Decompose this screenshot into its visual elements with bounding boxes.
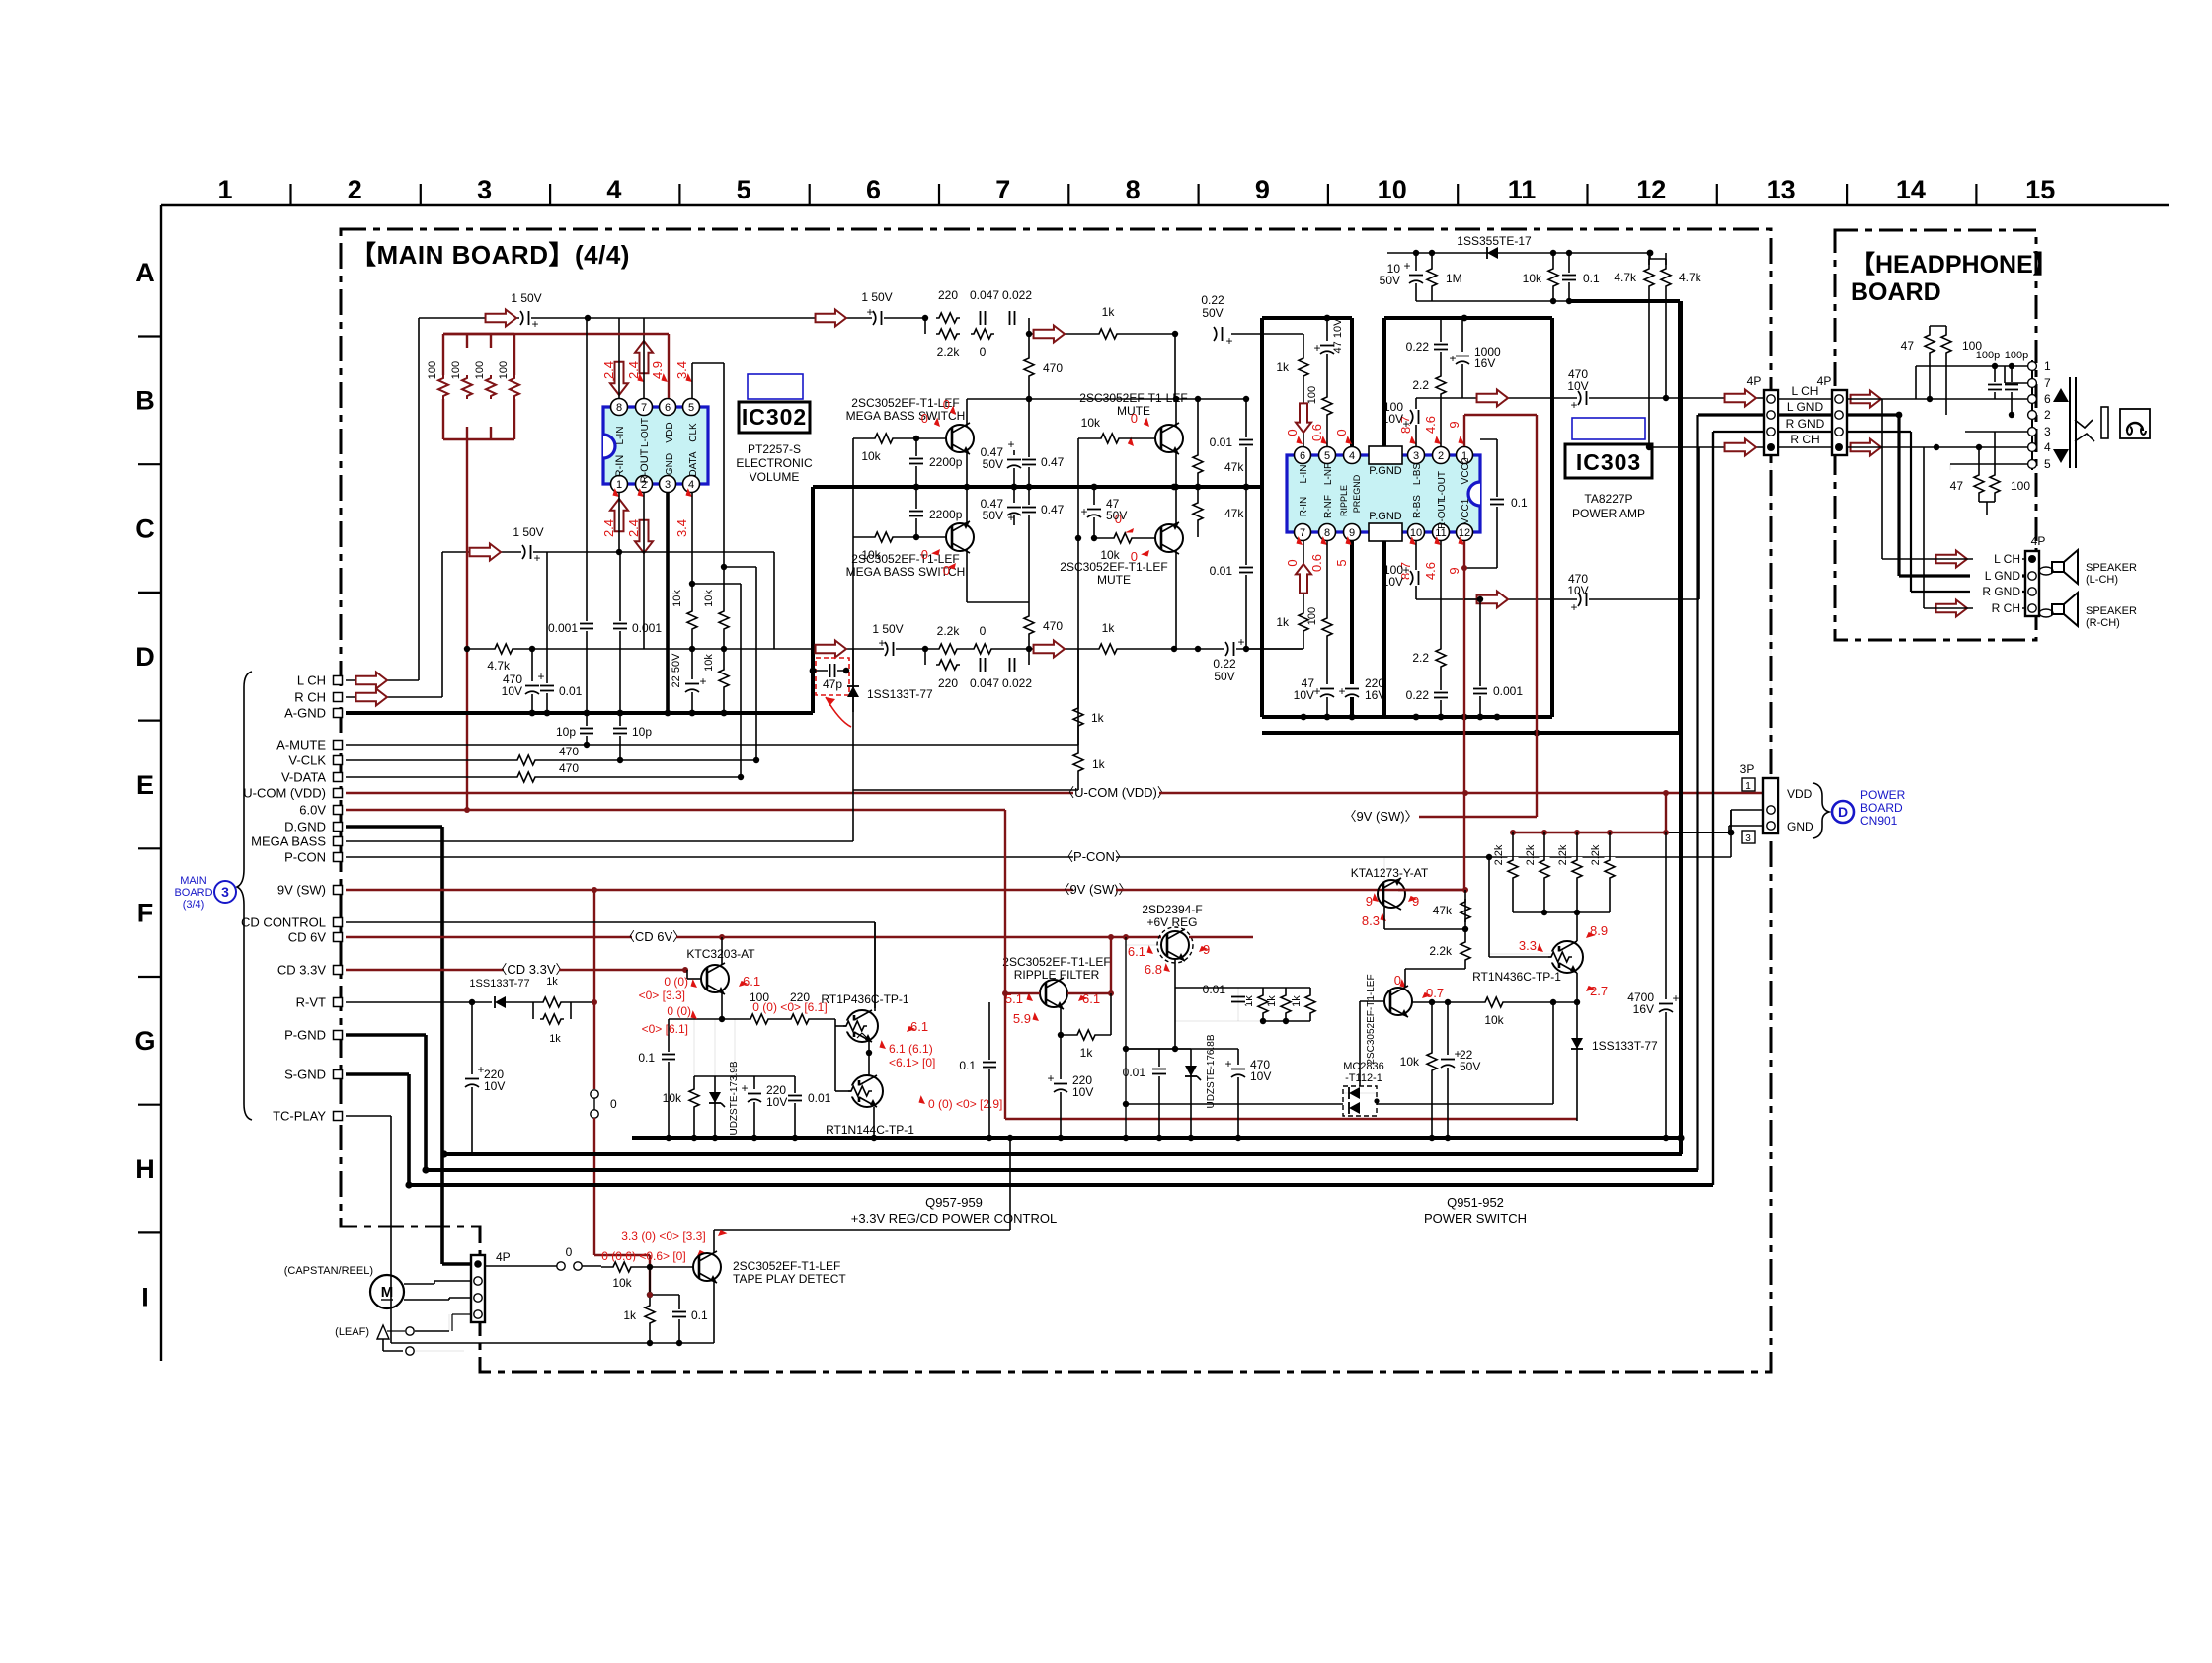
wire KTC emitter line [669,1018,835,1020]
node 9V (SW) terminal [334,886,343,895]
svg-text:1SS133T-77: 1SS133T-77 [867,687,933,701]
svg-text:0.1: 0.1 [1583,272,1600,285]
svg-text:Q951-952: Q951-952 [1447,1195,1504,1210]
filter network L: resistor 220, caps 0.047 0.022 [936,313,960,324]
capacitor 22 50V on DATA rail [691,584,693,713]
wire MC2836 connections [1126,1103,1343,1105]
svg-text:9: 9 [1349,527,1355,539]
svg-text:2200p: 2200p [929,455,963,469]
wire V-DATA line with resistor 470 [346,776,741,778]
svg-text:10V: 10V [1072,1085,1093,1099]
resistor 47k upper [1197,399,1199,487]
wire rail to 4.7k pair [1649,253,1651,259]
svg-text:〈CD 3.3V〉: 〈CD 3.3V〉 [494,962,568,977]
wire L CH output line [1416,397,1764,399]
resistor 1M [1431,253,1433,301]
node V-DATA terminal [334,773,343,782]
svg-text:【HEADPHONE】: 【HEADPHONE】 [1851,251,2058,278]
svg-text:100: 100 [450,361,462,379]
wires motor to connector [404,1283,434,1285]
zener UDZSTE-176.8B [1190,1049,1192,1138]
svg-text:R-IN: R-IN [614,455,626,478]
svg-text:0.01: 0.01 [1210,564,1233,578]
svg-text:L CH: L CH [1792,384,1819,398]
svg-text:【MAIN BOARD】(4/4): 【MAIN BOARD】(4/4) [351,240,630,270]
IC303 pin 3 [1408,447,1425,464]
svg-text:10k: 10k [663,1091,682,1105]
capacitor 1 50V (R2) [884,641,896,657]
svg-text:10k: 10k [703,654,715,672]
wire thick rail to 493 [1286,486,1288,488]
IC302 pin 4 [683,476,700,493]
svg-text:1 50V: 1 50V [872,622,903,636]
svg-text:+: + [1224,1057,1231,1070]
svg-text:+: + [741,1081,748,1095]
resistor 10k CLK b [719,667,730,690]
svg-text:220: 220 [938,676,958,690]
svg-text:RIPPLE: RIPPLE [1339,485,1349,516]
capacitor 0.01 (mute lower) [1245,487,1247,649]
resistor 10k (reg) [693,1019,695,1138]
resistor 10k DATA [687,608,698,632]
resistor 2.2k (sw) [1464,929,1466,969]
svg-text:+: + [1402,417,1409,431]
svg-text:10V: 10V [1567,379,1588,393]
svg-text:(L-CH): (L-CH) [2086,574,2118,586]
resistor 10k (rail) [1552,253,1554,301]
svg-text:L-IN: L-IN [1299,465,1309,484]
svg-text:50V: 50V [983,457,1003,471]
signal arrow R CH [356,689,387,706]
svg-text:10V: 10V [1250,1069,1271,1083]
capacitor 0.47 pair lower [1013,487,1015,525]
svg-text:+: + [866,305,873,319]
capacitor 0.01 (6v reg) [1126,1048,1175,1050]
svg-text:4.7k: 4.7k [1614,271,1637,284]
IC303 pin 9 [1344,524,1361,541]
svg-text:0.001: 0.001 [548,621,578,635]
transistor ripple filter [1040,980,1067,1007]
svg-text:2.2: 2.2 [1412,651,1429,665]
wire network L out [1029,333,1175,335]
wire into IC303 pin6 [1303,334,1304,446]
resistor 1k (R out) [1096,644,1120,655]
svg-text:F: F [137,899,154,928]
border frame top ruler [161,204,2169,206]
svg-text:(3/4): (3/4) [183,899,205,911]
svg-text:+: + [533,551,540,565]
capacitor 0.01 (mute upper) [1245,399,1247,487]
node 6.0V terminal [334,806,343,815]
thick rail top of power amp section [1262,316,1352,320]
wire R CH output line [1416,598,1699,600]
svg-text:47k: 47k [1224,507,1244,520]
IC302 pin 5 [683,399,700,416]
wire tc-play jumper line [485,1265,557,1267]
resistor 100 (reg) [748,1014,771,1025]
node CD CONTROL terminal [334,918,343,927]
capacitor 0.01 left (6v reg) [1126,1048,1159,1050]
capacitor 1 50V (L) [519,310,531,326]
svg-text:3: 3 [1745,833,1751,844]
svg-text:1 50V: 1 50V [861,290,892,304]
svg-text:10k: 10k [671,590,683,607]
resistor 10k (tape) [601,1266,693,1268]
filter network L: resistors 2.2k 0 [924,318,926,334]
svg-text:BOARD: BOARD [1851,278,1941,306]
svg-text:50V: 50V [1380,274,1400,287]
svg-text:1k: 1k [1276,360,1290,374]
svg-text:P-GND: P-GND [284,1028,326,1043]
svg-text:IC303: IC303 [1576,449,1641,475]
svg-text:5.9: 5.9 [1013,1011,1031,1026]
svg-text:10k: 10k [703,590,715,607]
resistor 47k (sw) [1464,890,1466,929]
svg-text:3: 3 [1413,450,1419,462]
connector 3P power board [1763,778,1778,833]
node S-GND terminal [334,1070,343,1079]
wire IC302 pin2 out [643,492,645,649]
IC302 pin 2 [636,476,653,493]
svg-text:MAIN: MAIN [180,875,207,887]
svg-text:U-COM (VDD): U-COM (VDD) [243,786,326,801]
resistor 2.2 bottom [1440,541,1442,717]
svg-text:A-MUTE: A-MUTE [276,738,326,752]
svg-text:5: 5 [688,402,694,414]
svg-text:0 (0) <0> [6.1]: 0 (0) <0> [6.1] [752,1000,827,1014]
main board outline (dash-dot) [341,229,1771,1372]
wire IC302 pin8 feed [618,318,620,399]
svg-text:+: + [1007,437,1014,451]
svg-text:Q957-959: Q957-959 [925,1195,983,1210]
IC303 pin 7 [1295,524,1311,541]
dark red VCC2 wiring [1463,415,1465,446]
svg-text:1k: 1k [1266,995,1278,1007]
svg-text:R-OUT: R-OUT [1437,498,1448,529]
svg-text:50V: 50V [1202,306,1223,320]
svg-text:+: + [1449,352,1456,365]
wire D.GND to motor connector [442,1262,471,1266]
svg-text:<6.1> [0]: <6.1> [0] [889,1056,935,1069]
svg-text:1k: 1k [1092,757,1106,771]
svg-text:L-BS: L-BS [1412,463,1423,486]
wire R-VT line [346,1001,492,1003]
wire collector lower mega bass [966,549,968,602]
wire R GND feed [1713,431,1764,433]
svg-text:10V: 10V [766,1095,787,1109]
svg-text:0.01: 0.01 [1210,436,1233,449]
svg-text:D: D [1838,804,1848,820]
svg-text:16V: 16V [1474,356,1495,370]
IC303 pin 5 [1319,447,1336,464]
svg-text:<0> [6.1]: <0> [6.1] [642,1022,688,1036]
wire R line extension [619,551,774,553]
svg-text:0.01: 0.01 [1203,983,1226,996]
resistor 1k (ripple) [1061,1034,1111,1036]
node R-VT terminal [334,998,343,1007]
svg-text:+: + [1338,684,1345,698]
wire RT1N436C collector [1576,912,1578,941]
IC IC302 body PT2257-S [603,407,708,484]
svg-text:2200p: 2200p [929,508,963,521]
svg-text:4.6: 4.6 [1423,416,1438,434]
wire 6.0V dark red rail [346,809,1005,811]
svg-text:6.1: 6.1 [1128,944,1145,959]
svg-text:M: M [381,1284,394,1301]
svg-text:POWER SWITCH: POWER SWITCH [1424,1211,1527,1226]
wire speaker L CH [1882,558,2025,560]
svg-text:10V: 10V [1382,575,1403,589]
svg-text:5: 5 [1334,559,1349,566]
svg-text:POWER: POWER [1860,788,1906,802]
IC303 pin 12 [1457,524,1473,541]
wire hp R GND [1847,431,1911,433]
svg-text:<0> [3.3]: <0> [3.3] [639,989,685,1002]
diode 1SS133T-77 (sw) [1576,1002,1578,1121]
svg-text:R GND: R GND [1982,585,2020,598]
svg-text:CD 6V: CD 6V [288,930,327,945]
resistor 1k at IC303 pin6 [1299,356,1309,379]
wire tape detect emitter [713,1281,715,1343]
signal arrow L line [486,310,516,327]
signal arrow into mega-bass network [816,310,846,327]
jack play triangle down [2053,449,2069,463]
svg-text:1k: 1k [1102,305,1116,319]
capacitor 220 10V (R-VT) [471,1002,473,1154]
wire V-CLK line with resistor 470 [346,759,756,761]
svg-text:C: C [135,514,155,543]
wire CD 3.3V dark red [346,969,504,971]
svg-text:8.3: 8.3 [1362,913,1380,928]
wire U-COM (VDD) dark red rail [346,792,1073,794]
svg-text:6.1: 6.1 [743,974,760,989]
wire jack pin1 line [1915,366,1917,399]
svg-text:0: 0 [943,397,950,412]
wires leaf to connector [415,1330,449,1332]
svg-text:9: 9 [1255,175,1270,204]
svg-text:+: + [1080,505,1087,518]
svg-text:L-OUT: L-OUT [1437,471,1448,501]
svg-text:MUTE: MUTE [1097,573,1131,587]
wire collector mute upper [1175,399,1177,427]
svg-text:GND: GND [665,453,675,475]
svg-text:(LEAF): (LEAF) [335,1326,369,1338]
svg-text:E: E [136,770,154,800]
svg-text:P.GND: P.GND [1369,511,1401,522]
svg-text:1: 1 [616,479,622,491]
svg-text:BOARD: BOARD [174,887,212,899]
svg-text:0.22: 0.22 [1406,340,1430,354]
resistor 1k (tape) [649,1267,651,1343]
svg-text:5: 5 [2044,457,2051,471]
svg-text:6: 6 [665,402,671,414]
svg-text:10k: 10k [1400,1055,1420,1069]
headphone icon [2120,409,2150,438]
svg-text:1 50V: 1 50V [511,291,541,305]
svg-text:RT1N436C-TP-1: RT1N436C-TP-1 [1472,970,1561,984]
svg-text:3.3: 3.3 [1519,938,1537,953]
main board edge stub [1770,455,1772,778]
svg-text:L GND: L GND [1787,400,1824,414]
IC302 spare box (blue) [748,374,803,399]
svg-text:+: + [1402,563,1409,577]
dark red VCC1 wiring [1463,541,1465,890]
wire IC302 pin5 CLK [691,363,693,399]
wire P-CON line [346,856,1073,858]
labels speaker connector [1973,551,2022,563]
wire 47k top [1464,890,1466,929]
signal arrow R line [470,544,501,561]
wire vcc1 jog [1464,598,1480,600]
svg-text:8: 8 [1126,175,1141,204]
svg-text:3: 3 [477,175,492,204]
svg-text:6.8: 6.8 [1145,962,1162,977]
svg-text:2SD2394-F: 2SD2394-F [1142,903,1202,916]
svg-text:G: G [134,1026,155,1056]
svg-text:+: + [1672,991,1679,1005]
wire 0.01 base cap [1230,994,1246,1004]
svg-text:6.0V: 6.0V [299,803,326,818]
svg-text:SPEAKER: SPEAKER [2086,562,2137,574]
svg-text:2: 2 [348,175,362,204]
svg-text:6: 6 [1300,450,1305,462]
svg-text:16V: 16V [1633,1002,1654,1016]
hp resistor 47 (upper) [1929,326,1931,399]
svg-text:4: 4 [606,175,621,204]
svg-text:P.GND: P.GND [1369,465,1401,477]
svg-text:IC302: IC302 [742,404,807,430]
node L CH terminal [334,676,343,685]
wire TC-PLAY [346,1115,391,1117]
svg-text:7: 7 [2044,376,2051,390]
svg-text:4: 4 [2044,440,2051,454]
svg-text:5: 5 [737,175,751,204]
thick analog ground bus [346,711,813,715]
node D.GND terminal [334,823,343,831]
svg-text:2.7: 2.7 [1590,984,1608,998]
svg-text:1k: 1k [1102,621,1116,635]
wire RT1P collector [874,922,876,1011]
headphone board outline (dash-dot) [1835,230,2036,640]
capacitor 0.1 (rail) [1568,253,1570,301]
svg-text:100: 100 [2011,479,2030,493]
svg-text:1: 1 [1745,781,1751,792]
wire jack pin5 stub [1950,463,2027,465]
wire emitter mute upper [1175,450,1177,487]
resistor 470 lower [1028,602,1030,649]
svg-text:0: 0 [1285,559,1300,566]
svg-text:9: 9 [1447,567,1461,574]
IC303 P.GND tabs [1369,446,1402,464]
wire 3P pin2 [1731,809,1764,811]
svg-text:2: 2 [2044,408,2051,422]
svg-text:6: 6 [2044,392,2051,406]
wire mute upper collector to IC303 [1174,334,1176,399]
resistor 10k (sw low) [1427,1050,1438,1073]
signal arrow R network in [816,641,846,658]
capacitor 10p pair [586,713,588,745]
svg-text:0.047: 0.047 [970,676,999,690]
capacitor 0.1 (reg) [668,1019,670,1138]
svg-text:2.2k: 2.2k [937,624,961,638]
wire sw 22/50V branch [1431,1002,1433,1138]
svg-text:0.1: 0.1 [959,1059,976,1072]
signal arrow into IC302 pin1 [610,499,628,531]
capacitor 0.1 (ripple) [988,1002,990,1138]
signal arrow down to IC303 pin6 [1296,403,1311,433]
svg-text:〈CD 6V〉: 〈CD 6V〉 [622,929,685,944]
resistor 47k lower [1197,487,1199,537]
wire hp R CH line [1847,446,2027,448]
svg-text:MEGA BASS: MEGA BASS [251,834,326,849]
resistor 2.2 top [1436,373,1447,397]
svg-text:10V: 10V [1294,688,1314,702]
svg-text:〈9V (SW)〉: 〈9V (SW)〉 [1343,809,1417,824]
wire L channel top line [419,317,925,319]
svg-text:R-IN: R-IN [1299,497,1309,517]
svg-text:+: + [1007,511,1014,524]
wire 2.2k bottom rail [1513,911,1610,913]
svg-text:0.22: 0.22 [1213,657,1236,671]
svg-text:47p: 47p [823,677,842,691]
svg-text:+: + [1403,259,1410,273]
motor M capstan/reel [370,1275,404,1308]
svg-text:47k: 47k [1224,460,1244,474]
resistor 1k pair (R-VT) [533,1001,571,1003]
svg-text:CLK: CLK [688,423,699,442]
capacitor 220 10V (ripple) [1053,1079,1068,1092]
signal arrow into IC302 pin8 [610,362,628,395]
signal arrow L out (conn) [1725,390,1756,407]
svg-text:-T112-1: -T112-1 [1345,1072,1382,1084]
svg-text:7: 7 [995,175,1010,204]
svg-text:5: 5 [1324,450,1330,462]
svg-text:1k: 1k [1091,711,1105,725]
resistor 1k x3 (6v reg) [1175,987,1310,989]
bus risers right [1679,301,1683,1154]
IC302 pin 1 [611,476,628,493]
svg-text:+: + [531,317,538,331]
wire RT1N436C base [1489,953,1551,955]
signal arrow speaker R [1936,600,1967,617]
svg-text:0 (0): 0 (0) [664,975,688,989]
svg-text:100: 100 [1306,386,1318,404]
transistor Q mega bass upper [946,425,974,452]
svg-text:1k: 1k [623,1308,637,1322]
svg-text:0.01: 0.01 [808,1091,831,1105]
svg-text:0: 0 [1131,549,1138,564]
IC303 pin 1 [1457,447,1473,464]
svg-text:+3.3V REG/CD POWER CONTROL: +3.3V REG/CD POWER CONTROL [851,1211,1057,1226]
wire 9V (SW) vertical drop dark red [593,890,595,1089]
signal arrow R into hp board [1851,439,1881,456]
wire hp L GND [1847,413,1899,416]
power board D circle [1832,801,1854,823]
IC IC303 body TA8227P [1287,455,1480,532]
diode 1SS133T-77 (detect) [852,649,854,712]
wire sw collector [1404,969,1406,988]
svg-text:13: 13 [1767,175,1796,204]
svg-text:0.1: 0.1 [638,1051,655,1065]
svg-text:47k: 47k [1433,904,1453,917]
svg-text:0.047: 0.047 [970,288,999,302]
node U-COM (VDD) terminal [334,789,343,798]
svg-text:0 (0.6) <0.6> [0]: 0 (0.6) <0.6> [0] [601,1249,685,1263]
svg-text:11: 11 [1508,175,1537,204]
signal arrow L out [1477,390,1508,407]
IC303 pin 4 [1344,447,1361,464]
svg-text:4: 4 [1349,450,1355,462]
